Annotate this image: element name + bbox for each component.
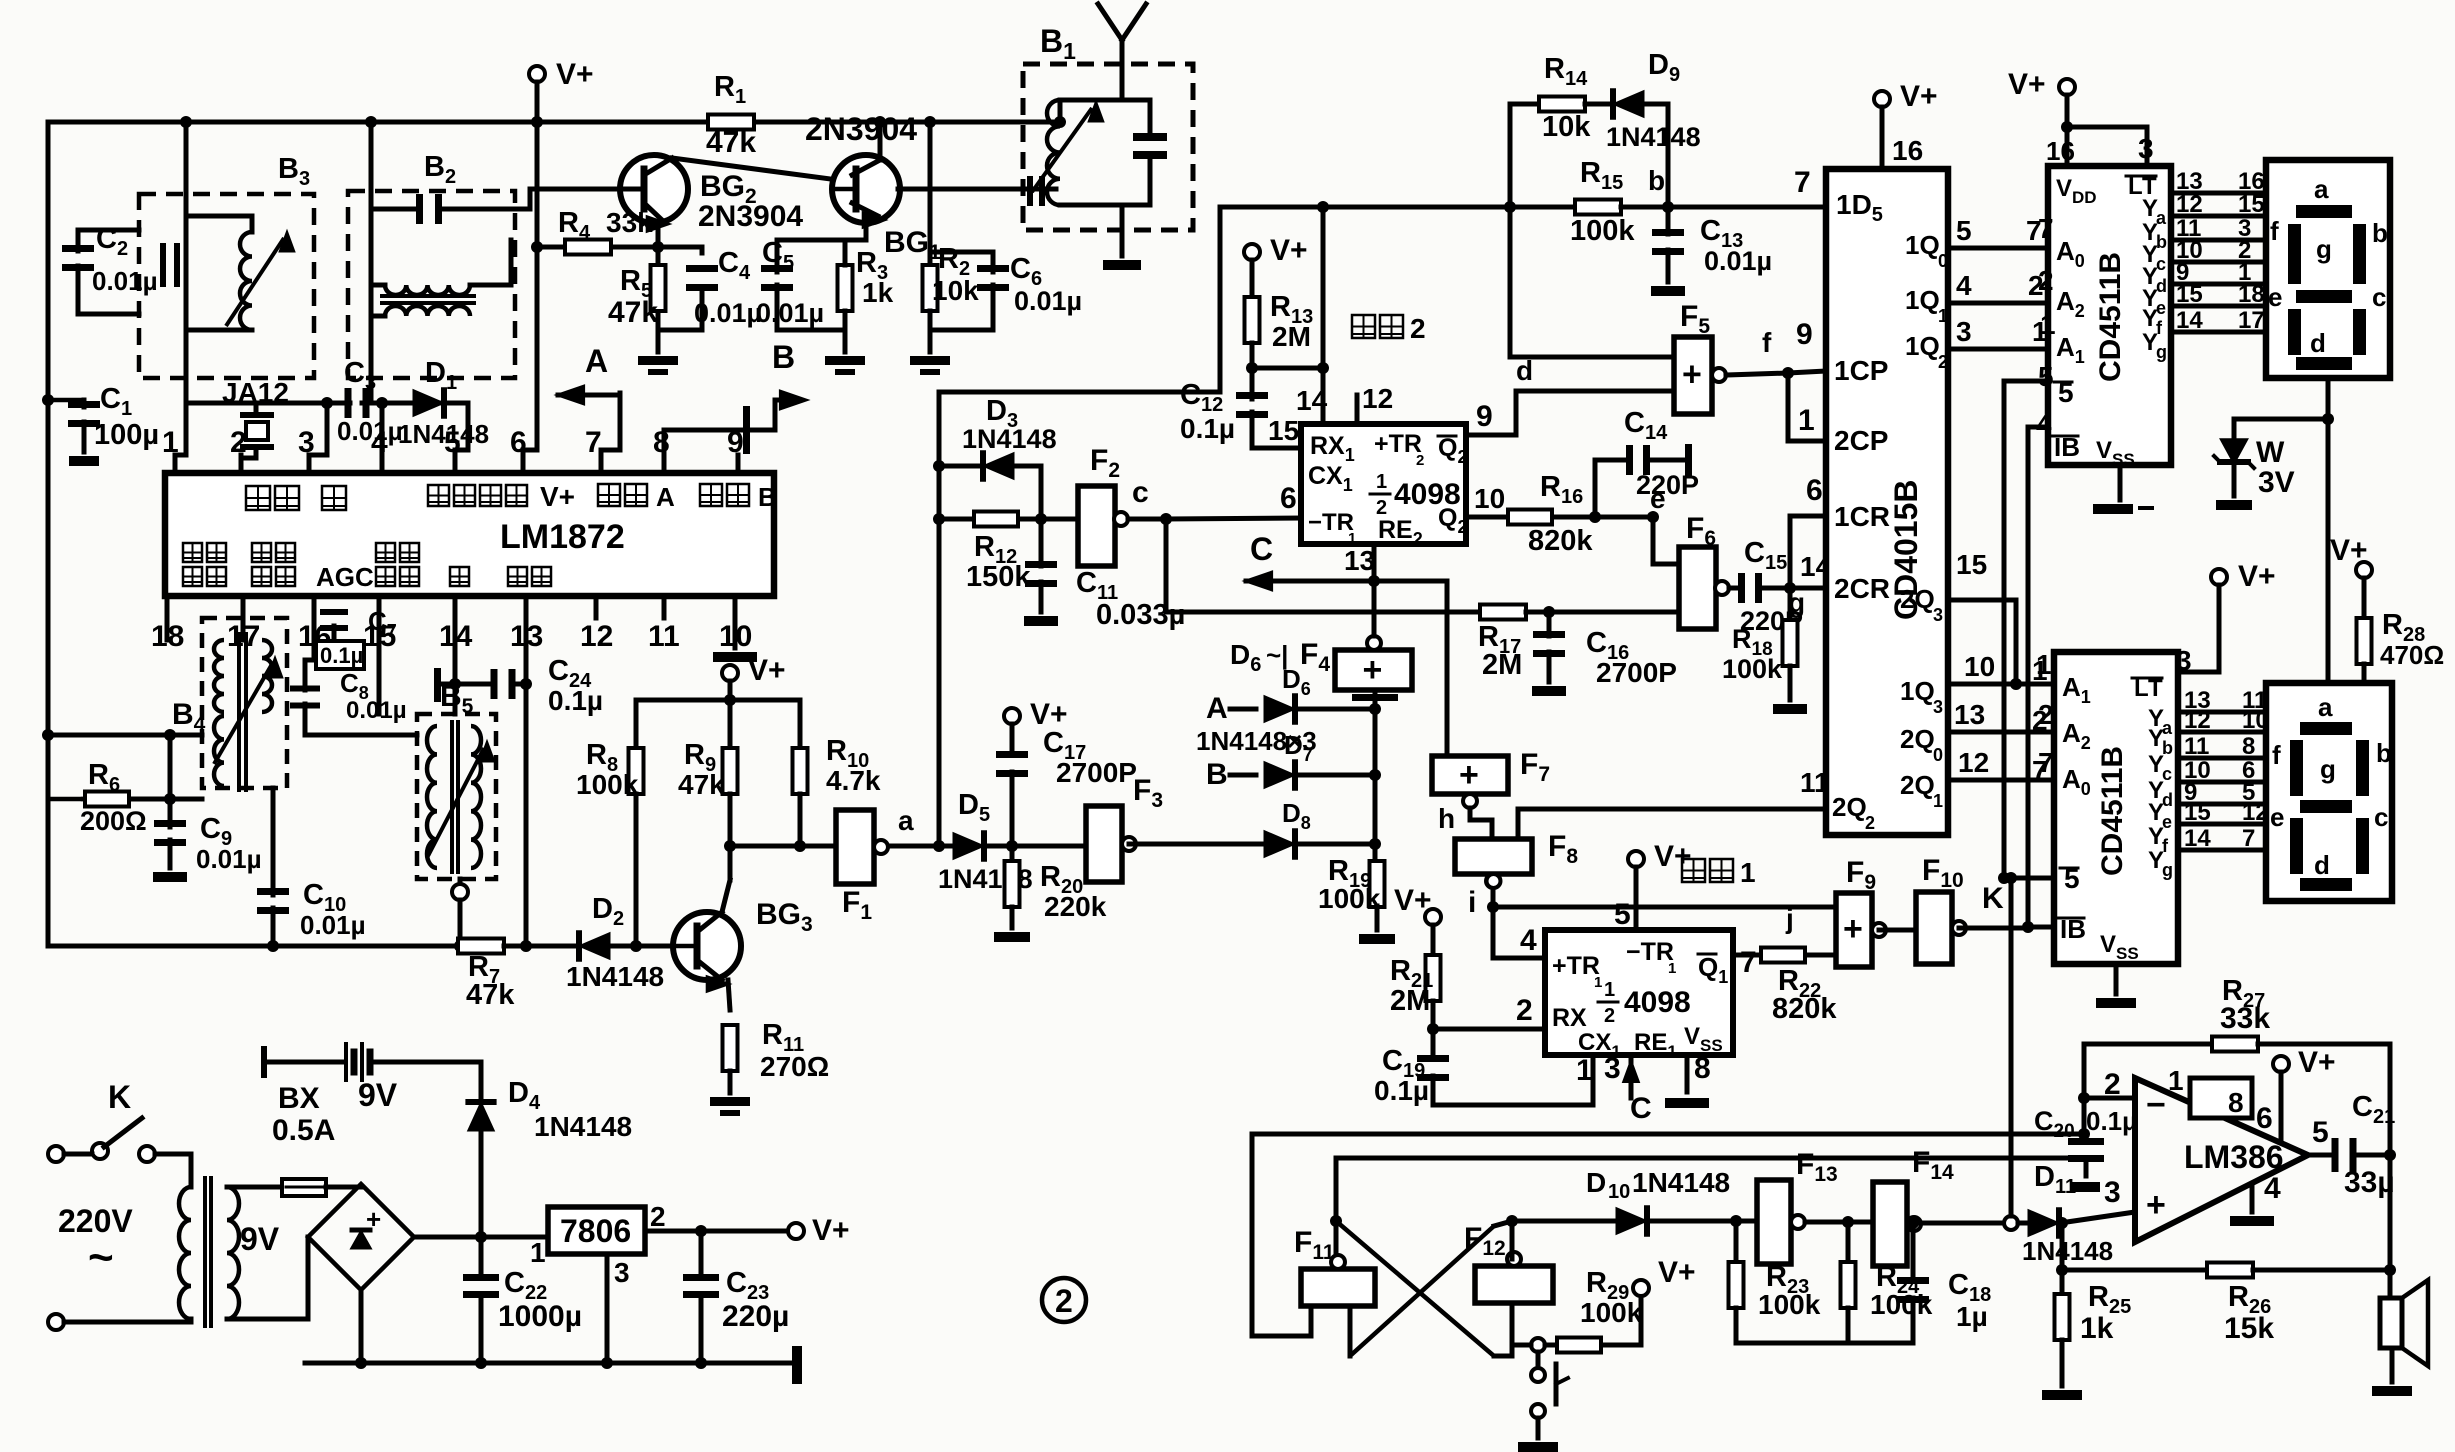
svg-text:V+: V+ (1270, 234, 1308, 267)
svg-text:V+: V+ (2330, 534, 2368, 567)
svg-text:2CP: 2CP (1834, 425, 1888, 456)
svg-text:0: 0 (1933, 745, 1943, 765)
svg-text:7: 7 (1740, 946, 1757, 979)
svg-text:0.01µ: 0.01µ (694, 298, 762, 328)
svg-text:4: 4 (1956, 270, 1972, 301)
svg-text:3: 3 (614, 1257, 630, 1288)
svg-text:f: f (2272, 740, 2281, 770)
svg-text:b: b (2372, 218, 2388, 248)
svg-text:1N4148: 1N4148 (566, 961, 664, 992)
svg-text:2N3904: 2N3904 (805, 111, 917, 147)
svg-text:12: 12 (2184, 707, 2211, 734)
svg-text:7: 7 (2242, 825, 2255, 852)
svg-text:220µ: 220µ (722, 1300, 789, 1333)
svg-text:5: 5 (2038, 361, 2054, 392)
svg-text:2: 2 (1416, 452, 1424, 469)
svg-text:C: C (1630, 1092, 1652, 1125)
svg-text:−: − (2146, 1086, 2166, 1124)
svg-text:100k: 100k (1722, 654, 1783, 684)
svg-text:1Q: 1Q (1905, 331, 1940, 361)
svg-text:1: 1 (2168, 1065, 2184, 1096)
svg-text:2: 2 (1055, 1283, 1073, 1319)
svg-text:g: g (2320, 754, 2336, 784)
svg-text:AGC: AGC (316, 562, 374, 592)
svg-text:470Ω: 470Ω (2380, 640, 2444, 670)
svg-text:1CP: 1CP (1834, 355, 1888, 386)
svg-text:2700P: 2700P (1056, 757, 1137, 788)
svg-text:a: a (898, 805, 914, 836)
svg-text:0.01µ: 0.01µ (756, 298, 824, 328)
svg-text:5: 5 (1614, 898, 1631, 931)
svg-text:2Q: 2Q (1900, 584, 1935, 614)
svg-text:g: g (2162, 860, 2173, 880)
svg-text:W: W (2256, 436, 2285, 469)
svg-text:b: b (1648, 165, 1665, 196)
svg-text:4: 4 (2264, 1172, 2281, 1205)
svg-text:3: 3 (1604, 1052, 1621, 1085)
svg-text:16: 16 (2046, 136, 2075, 166)
svg-text:1: 1 (1938, 306, 1948, 326)
svg-text:1: 1 (1668, 960, 1676, 977)
svg-text:1N4148: 1N4148 (962, 424, 1057, 454)
svg-text:11: 11 (2184, 733, 2209, 760)
svg-text:14: 14 (1296, 385, 1328, 416)
svg-text:33k: 33k (606, 207, 653, 238)
svg-text:100k: 100k (1758, 1289, 1821, 1320)
svg-text:270Ω: 270Ω (760, 1051, 829, 1082)
svg-text:3: 3 (1956, 316, 1972, 347)
svg-text:6: 6 (1806, 474, 1823, 507)
svg-text:K: K (108, 1079, 131, 1115)
svg-text:4098: 4098 (1624, 986, 1691, 1019)
svg-text:1Q: 1Q (1900, 676, 1935, 706)
svg-text:33k: 33k (2220, 1002, 2270, 1035)
svg-text:+: + (1682, 356, 1702, 394)
svg-text:0.01µ: 0.01µ (1704, 246, 1772, 276)
svg-text:0.1µ: 0.1µ (548, 685, 603, 716)
svg-text:12: 12 (1958, 747, 1989, 778)
svg-text:C: C (1250, 531, 1273, 567)
svg-text:2: 2 (1865, 813, 1875, 833)
svg-text:1: 1 (1604, 979, 1615, 1001)
svg-text:12: 12 (2176, 191, 2203, 218)
svg-text:V+: V+ (2008, 68, 2046, 101)
svg-text:~: ~ (88, 1233, 114, 1282)
svg-text:1: 1 (1594, 974, 1602, 991)
svg-text:5: 5 (1956, 215, 1972, 246)
svg-text:820k: 820k (1772, 993, 1837, 1025)
svg-text:0: 0 (1938, 251, 1948, 271)
svg-text:47k: 47k (608, 296, 658, 329)
svg-text:e: e (2268, 282, 2282, 312)
svg-text:2: 2 (1604, 1005, 1615, 1027)
svg-text:a: a (2318, 692, 2333, 722)
svg-text:2CR: 2CR (1834, 573, 1890, 604)
svg-text:b: b (2376, 738, 2392, 768)
svg-text:d: d (2310, 328, 2326, 358)
svg-text:15: 15 (2184, 799, 2211, 826)
svg-text:+: + (366, 1204, 381, 1234)
svg-text:CD4511B: CD4511B (2094, 252, 2127, 382)
svg-text:4.7k: 4.7k (826, 765, 881, 796)
svg-text:d: d (2314, 850, 2330, 880)
svg-text:1Q: 1Q (1905, 230, 1940, 260)
svg-text:1N4148: 1N4148 (1632, 1167, 1730, 1198)
svg-text:0.01µ: 0.01µ (196, 844, 262, 874)
svg-text:B: B (1206, 758, 1228, 791)
svg-text:9V: 9V (358, 1077, 398, 1113)
svg-text:CD4511B: CD4511B (2096, 746, 2129, 876)
svg-text:100k: 100k (1318, 883, 1381, 914)
svg-text:2M: 2M (1272, 321, 1311, 352)
svg-text:+: + (2146, 1186, 2166, 1224)
svg-text:V+: V+ (540, 481, 575, 512)
svg-text:V+: V+ (748, 654, 786, 687)
svg-text:1Q: 1Q (1905, 285, 1940, 315)
svg-text:1: 1 (2032, 655, 2048, 686)
svg-text:10: 10 (1608, 1181, 1630, 1203)
svg-text:11: 11 (1800, 767, 1830, 798)
svg-text:0.01µ: 0.01µ (337, 416, 403, 446)
svg-text:15: 15 (2238, 191, 2265, 218)
svg-text:1: 1 (1376, 471, 1387, 493)
svg-text:8: 8 (653, 426, 670, 459)
svg-text:LM1872: LM1872 (500, 518, 625, 556)
svg-text:47k: 47k (678, 769, 725, 800)
svg-text:f: f (2270, 216, 2279, 246)
svg-text:RX: RX (1552, 1004, 1587, 1032)
svg-text:V+: V+ (812, 1214, 850, 1247)
svg-text:10: 10 (1964, 651, 1995, 682)
svg-text:13: 13 (1344, 545, 1375, 576)
svg-text:V+: V+ (556, 58, 594, 91)
svg-text:7: 7 (2032, 755, 2048, 786)
svg-text:10k: 10k (1542, 111, 1591, 143)
svg-text:18: 18 (2238, 281, 2265, 308)
svg-text:8: 8 (2242, 733, 2255, 760)
svg-text:1: 1 (2040, 309, 2056, 340)
svg-text:0.1µ: 0.1µ (2086, 1106, 2137, 1136)
svg-text:1: 1 (1798, 404, 1815, 437)
svg-text:j: j (1785, 903, 1794, 934)
svg-text:h: h (1438, 803, 1455, 834)
svg-text:0.01µ: 0.01µ (346, 697, 407, 724)
svg-text:0.01µ: 0.01µ (1014, 286, 1082, 316)
svg-text:+: + (1459, 756, 1479, 794)
svg-text:V+: V+ (1900, 80, 1938, 113)
svg-text:A: A (585, 343, 608, 379)
svg-text:1N4148: 1N4148 (2022, 1236, 2113, 1266)
svg-text:0.01µ: 0.01µ (92, 266, 158, 296)
svg-text:100k: 100k (1870, 1289, 1933, 1320)
svg-text:c: c (1132, 476, 1149, 509)
svg-text:8: 8 (2228, 1087, 2244, 1118)
svg-text:100µ: 100µ (94, 419, 159, 451)
svg-text:1N4148: 1N4148 (534, 1111, 632, 1142)
svg-text:11: 11 (648, 620, 680, 653)
svg-text:100k: 100k (1580, 1297, 1643, 1328)
svg-text:15: 15 (2176, 281, 2203, 308)
svg-text:3: 3 (1933, 605, 1943, 625)
svg-text:5: 5 (444, 426, 461, 459)
svg-text:0.1µ: 0.1µ (1180, 413, 1235, 444)
svg-text:4: 4 (1520, 924, 1537, 957)
svg-text:10k: 10k (932, 275, 979, 306)
svg-text:7806: 7806 (560, 1213, 631, 1249)
svg-text:i: i (1468, 886, 1476, 919)
svg-text:e: e (1650, 483, 1666, 514)
svg-text:c: c (2372, 282, 2386, 312)
svg-text:K: K (1982, 882, 2004, 915)
svg-text:V+: V+ (2298, 1046, 2336, 1079)
svg-text:6: 6 (1280, 482, 1297, 515)
svg-text:3: 3 (2104, 1176, 2121, 1209)
svg-text:g: g (2156, 342, 2167, 362)
svg-text:1000µ: 1000µ (498, 1300, 582, 1333)
svg-text:2: 2 (230, 426, 247, 459)
svg-text:14: 14 (2184, 825, 2211, 852)
svg-text:2Q: 2Q (1900, 724, 1935, 754)
svg-text:7: 7 (2038, 213, 2054, 244)
svg-text:15k: 15k (2224, 1312, 2274, 1345)
svg-text:D: D (1586, 1167, 1606, 1198)
svg-text:B: B (772, 339, 795, 375)
svg-text:V+: V+ (1658, 1256, 1696, 1289)
svg-text:10: 10 (1474, 483, 1505, 514)
svg-text:9: 9 (1796, 318, 1813, 351)
svg-text:220P: 220P (1636, 470, 1699, 500)
svg-text:1k: 1k (2080, 1312, 2114, 1345)
svg-text:2: 2 (2032, 705, 2048, 736)
svg-text:220k: 220k (1044, 891, 1107, 922)
svg-text:13: 13 (1954, 699, 1985, 730)
svg-text:A: A (656, 482, 675, 512)
svg-text:0.1µ: 0.1µ (1374, 1075, 1429, 1106)
svg-text:33µ: 33µ (2344, 1166, 2395, 1199)
svg-text:1: 1 (1576, 1054, 1593, 1087)
svg-text:a: a (2314, 174, 2329, 204)
svg-text:47k: 47k (466, 979, 515, 1011)
svg-text:2: 2 (1410, 313, 1426, 344)
svg-text:c: c (2374, 802, 2388, 832)
svg-text:LM386: LM386 (2184, 1139, 2284, 1175)
svg-text:9: 9 (1476, 400, 1493, 433)
svg-text:BX: BX (278, 1082, 320, 1115)
svg-text:8: 8 (1694, 1052, 1711, 1085)
svg-text:g: g (2316, 234, 2332, 264)
svg-text:17: 17 (2238, 307, 2265, 334)
svg-text:V+: V+ (1654, 840, 1692, 873)
svg-text:0.033µ: 0.033µ (1096, 599, 1185, 631)
svg-text:2M: 2M (1482, 649, 1522, 681)
svg-text:0.01µ: 0.01µ (300, 910, 366, 940)
svg-text:2M: 2M (1390, 985, 1430, 1017)
svg-text:2: 2 (2038, 265, 2054, 296)
svg-text:0.5A: 0.5A (272, 1114, 335, 1147)
svg-text:+: + (1363, 651, 1383, 689)
svg-text:−TR: −TR (1626, 938, 1674, 966)
svg-text:7: 7 (1794, 166, 1811, 199)
svg-text:4: 4 (371, 426, 388, 459)
svg-text:6: 6 (2256, 1102, 2273, 1135)
svg-text:2: 2 (1938, 352, 1948, 372)
svg-text:9: 9 (727, 426, 744, 459)
svg-text:B: B (758, 482, 777, 512)
svg-text:3: 3 (1933, 697, 1943, 717)
svg-text:1µ: 1µ (1956, 1301, 1988, 1332)
svg-text:100k: 100k (576, 769, 639, 800)
svg-text:1k: 1k (862, 277, 894, 308)
svg-text:150k: 150k (966, 561, 1031, 593)
svg-text:16: 16 (1892, 135, 1923, 166)
svg-text:5: 5 (2312, 1116, 2329, 1149)
svg-text:1CR: 1CR (1834, 501, 1890, 532)
svg-text:V+: V+ (1394, 884, 1432, 917)
svg-text:47k: 47k (706, 126, 756, 159)
svg-text:2: 2 (1516, 994, 1533, 1027)
svg-text:3: 3 (298, 426, 315, 459)
svg-text:2N3904: 2N3904 (698, 200, 803, 233)
svg-text:2Q: 2Q (1832, 792, 1867, 822)
svg-text:0.1µ: 0.1µ (320, 643, 363, 668)
svg-text:9V: 9V (240, 1221, 280, 1257)
svg-text:3: 3 (2138, 133, 2154, 164)
svg-text:2Q: 2Q (1900, 770, 1935, 800)
svg-text:d: d (1516, 355, 1533, 386)
svg-text:12: 12 (1362, 383, 1393, 414)
svg-text:100k: 100k (1570, 215, 1635, 247)
svg-text:3V: 3V (2258, 466, 2295, 499)
svg-text:820k: 820k (1528, 525, 1593, 557)
svg-text:12: 12 (580, 620, 613, 653)
svg-text:15: 15 (1268, 415, 1299, 446)
svg-text:200Ω: 200Ω (80, 806, 147, 836)
svg-text:e: e (2270, 802, 2284, 832)
svg-text:1N4148: 1N4148 (1606, 122, 1701, 152)
svg-text:f: f (1762, 327, 1772, 358)
svg-text:+TR: +TR (1552, 952, 1600, 980)
svg-text:14: 14 (2176, 307, 2203, 334)
svg-text:2700P: 2700P (1596, 657, 1677, 688)
svg-text:A: A (1206, 692, 1228, 725)
svg-text:+TR: +TR (1374, 430, 1422, 458)
svg-text:15: 15 (1956, 549, 1987, 580)
svg-text:+: + (1843, 910, 1863, 948)
svg-text:1: 1 (530, 1237, 546, 1268)
svg-text:1: 1 (1740, 857, 1756, 888)
svg-text:7: 7 (585, 426, 602, 459)
svg-text:1: 1 (1933, 791, 1943, 811)
svg-text:2: 2 (650, 1201, 666, 1232)
svg-text:V+: V+ (2238, 560, 2276, 593)
